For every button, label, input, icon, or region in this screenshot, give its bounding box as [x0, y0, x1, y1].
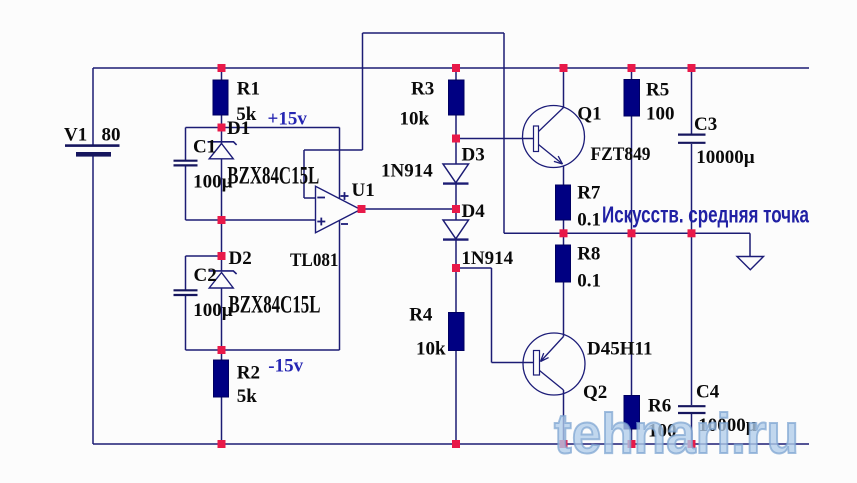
wire feedback vertical right	[362, 33, 364, 150]
transistor Q1	[523, 106, 585, 168]
wire feedback right vertical	[503, 33, 505, 233]
svg-text:R3: R3	[411, 79, 434, 100]
svg-text:tehnari.ru: tehnari.ru	[554, 402, 799, 466]
wire C1 loop top	[186, 127, 222, 129]
zener diode D2	[209, 271, 237, 288]
svg-text:D2: D2	[229, 248, 252, 269]
node R2 bottom rail	[218, 440, 226, 448]
wire middle point to R6	[631, 233, 633, 395]
resistor R7	[556, 185, 571, 220]
capacitor C4	[678, 406, 706, 413]
wire Q2 collector to bottom rail	[563, 390, 565, 444]
wire C3 to middle point	[691, 144, 693, 233]
wire top rail	[93, 67, 809, 69]
node C1 bottom opamp input	[218, 216, 226, 224]
svg-text:R5: R5	[646, 80, 669, 101]
wire R7 to R8	[563, 220, 565, 245]
svg-text:C2: C2	[194, 265, 217, 286]
node R3 bottom Q1 base	[452, 135, 460, 143]
node rail R3	[452, 64, 460, 72]
wire +15v down to op-amp top	[339, 128, 341, 199]
svg-text:5k: 5k	[237, 386, 257, 407]
wire Q2 base vertical	[491, 268, 493, 363]
resistor R8	[556, 245, 571, 282]
svg-text:-15v: -15v	[268, 356, 303, 377]
wire Q1 base	[456, 138, 534, 140]
svg-text:FZT849: FZT849	[591, 144, 651, 165]
svg-text:Искусств. средняя точка: Искусств. средняя точка	[602, 202, 809, 228]
wire ground drop	[749, 233, 751, 256]
node R4 bottom rail	[452, 440, 460, 448]
zener diode D1	[208, 142, 237, 159]
wire rail to R3	[455, 68, 457, 80]
svg-text:0.1: 0.1	[577, 210, 601, 231]
node R6 bottom rail	[628, 440, 636, 448]
wire feedback down	[303, 150, 305, 198]
resistor R1	[213, 80, 228, 115]
capacitor C2	[174, 290, 198, 295]
wire D1 to D2	[221, 159, 223, 272]
diode D4	[443, 220, 469, 240]
svg-text:D1: D1	[227, 118, 250, 139]
battery V1 plate short	[76, 152, 111, 157]
node junctions	[218, 64, 696, 448]
node C4 bottom rail	[688, 440, 696, 448]
wire R2 to bottom rail	[221, 397, 223, 444]
resistor R5	[624, 80, 640, 117]
wire R4 to bottom rail	[455, 351, 457, 445]
svg-text:BZX84C15L: BZX84C15L	[227, 163, 319, 190]
resistor R2	[214, 360, 229, 397]
ground	[737, 257, 764, 270]
svg-text:+15v: +15v	[268, 109, 308, 130]
op-amp U1	[316, 186, 361, 232]
node R2 top -15v	[218, 346, 226, 354]
capacitor C1	[174, 161, 198, 166]
wire D2 to R2	[221, 288, 223, 360]
capacitor C3	[678, 135, 706, 143]
node rail R5	[628, 64, 636, 72]
svg-text:10000µ: 10000µ	[696, 147, 755, 168]
wire battery top lead	[92, 68, 94, 145]
svg-text:TL081: TL081	[290, 250, 339, 271]
node opamp output	[358, 205, 366, 213]
wire R1 to D1	[221, 115, 223, 144]
node D4 bottom	[452, 264, 460, 272]
resistor R4	[449, 313, 465, 351]
wire C2 bottom lead	[185, 296, 187, 351]
wire op-amp bottom to -15v	[339, 221, 341, 351]
svg-text:10k: 10k	[400, 109, 430, 130]
svg-text:100: 100	[646, 104, 675, 125]
wire to inverting input	[304, 197, 316, 199]
wire C4 to bottom rail	[691, 414, 693, 444]
wire op-amp output	[362, 208, 457, 210]
resistor R6	[624, 396, 640, 430]
svg-text:BZX84C15L: BZX84C15L	[229, 292, 321, 319]
transistor Q2	[523, 333, 585, 395]
svg-text:D45H11: D45H11	[587, 339, 652, 360]
battery V1 plate long	[65, 144, 120, 147]
svg-text:Q1: Q1	[577, 104, 601, 125]
svg-text:10k: 10k	[416, 339, 446, 360]
wire C2 top lead	[185, 256, 187, 290]
wire R5 to middle point	[631, 116, 633, 233]
wire R3 to D3	[455, 115, 457, 164]
svg-text:V1: V1	[64, 125, 87, 146]
wire D3 to D4	[455, 185, 457, 221]
svg-text:Q2: Q2	[583, 382, 607, 403]
wire feedback top	[363, 32, 505, 34]
wire battery bottom lead	[92, 157, 94, 445]
wire +15v horizontal	[222, 127, 340, 129]
svg-text:R1: R1	[237, 79, 260, 100]
node rail R1	[218, 64, 226, 72]
wire R6 to bottom rail	[631, 429, 633, 444]
wire rail to C3	[691, 68, 693, 134]
wire C1 bottom lead	[185, 166, 187, 220]
svg-text:1N914: 1N914	[461, 248, 513, 269]
svg-text:R4: R4	[409, 305, 433, 326]
node opamp output D3 D4	[452, 205, 460, 213]
node R1 bottom +15v	[218, 124, 226, 132]
svg-text:R2: R2	[237, 363, 260, 384]
wire rail to R5	[631, 68, 633, 80]
svg-text:C4: C4	[696, 382, 720, 403]
wire C1 top lead	[185, 128, 187, 161]
wire Q1 collector to rail	[563, 68, 565, 108]
wire rail to R1	[221, 68, 223, 80]
wire R8 to Q2	[563, 282, 565, 337]
wire D4 junction to Q2 base horizontal	[456, 267, 492, 269]
svg-text:100µ: 100µ	[193, 300, 233, 321]
svg-text:U1: U1	[352, 180, 375, 201]
wire feedback horizontal	[304, 149, 363, 151]
wire Q1 emitter to R7	[563, 166, 565, 185]
svg-text:1N914: 1N914	[381, 161, 433, 182]
wire C2 loop bottom / -15v line to op-amp	[186, 349, 340, 351]
wire D4 to R4	[455, 241, 457, 313]
wire C2 loop top	[186, 255, 222, 257]
svg-text:0.1: 0.1	[577, 271, 601, 292]
wire bottom rail	[93, 443, 809, 445]
svg-text:80: 80	[102, 125, 121, 146]
diode D3	[443, 164, 469, 184]
resistor R3	[449, 80, 465, 115]
node R5 R6 middle	[628, 229, 636, 237]
svg-text:C3: C3	[694, 114, 717, 135]
node D2 top	[218, 252, 226, 260]
wire C1 loop bottom to op-amp noninverting input	[186, 219, 316, 221]
node C3 C4 middle	[688, 229, 696, 237]
node rail Q1 collector	[560, 64, 568, 72]
node R7 R8 middle	[560, 229, 568, 237]
wire middle point horizontal	[504, 232, 750, 234]
svg-text:C1: C1	[193, 137, 216, 158]
svg-text:R8: R8	[577, 244, 600, 265]
node Q2 emitter bottom rail	[560, 440, 568, 448]
node rail C3	[688, 64, 696, 72]
svg-text:D3: D3	[462, 145, 485, 166]
svg-text:D4: D4	[462, 201, 486, 222]
wire middle point to C4	[691, 233, 693, 405]
svg-text:R7: R7	[577, 183, 601, 204]
wire to Q2 base	[492, 362, 534, 364]
